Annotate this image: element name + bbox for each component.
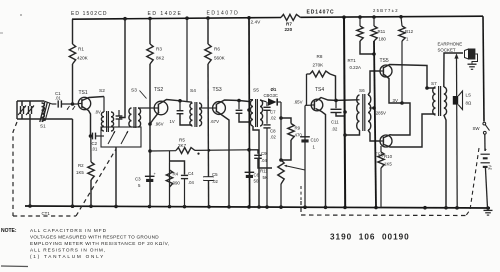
capacitor C10 1 tantalum [304,170,306,207]
resistor R10 1K5 [380,146,382,152]
shield can box [101,127,141,147]
potentiometer R11 5K volume [279,158,283,162]
svg-text:.01: .01 [92,147,98,152]
wire S6 sec tap [369,107,374,109]
wire S5 bottom return [253,126,259,207]
resistor R7 220 in top bus [281,14,301,20]
wire tank bottom [17,118,73,120]
wire TS1 emitter [82,107,91,136]
svg-text:S7: S7 [431,81,437,86]
resistor R11b 180 [373,17,375,26]
svg-text:C3: C3 [135,177,141,182]
inductor S4 [190,103,193,126]
svg-text:.02: .02 [332,127,338,132]
svg-text:+: + [484,148,487,153]
transistor TS4 [311,99,323,111]
svg-text:.04: .04 [188,180,194,185]
thermistor RT1 0.22A [359,17,361,26]
wire S5 to diode [260,100,267,102]
wire supply drop to IF can [119,19,125,118]
resistor R3 8K2 [149,19,151,45]
svg-text:2.4V: 2.4V [251,20,262,26]
resistor R1 420K [72,19,74,44]
svg-text:8K2: 8K2 [156,56,165,61]
wire tank to ground bus [29,119,31,206]
svg-text:SW: SW [473,126,481,131]
wire cap stubs [21,101,23,106]
wire S7 sec bottom to bus [444,115,446,208]
svg-text:.02: .02 [270,115,276,120]
variable capacitor CT1b [28,106,30,114]
svg-text:TS1: TS1 [79,90,88,96]
wire diode out [277,101,281,103]
switch SW [483,122,486,125]
wire long vertical ED1407C drop [248,18,251,207]
svg-text:R6: R6 [214,47,220,52]
svg-text:.96V: .96V [155,122,164,127]
capacitor C4 .04 [170,161,185,175]
inductor S2 [103,97,105,113]
wire right edge supply drop [483,16,484,121]
wire volume to TS4 base [304,106,306,171]
capacitor C7 .02 [266,102,268,106]
svg-text:LS: LS [466,93,471,98]
svg-text:EMPLOYING METER WITH RESIS: EMPLOYING METER WITH RESISTANCE OF 20 KΩ… [30,241,170,246]
svg-text:ED 1402E: ED 1402E [148,11,183,17]
speck marks [20,14,22,16]
wire can to ground [115,147,117,206]
transformer S7 output [433,87,436,115]
capacitor C11 .02 [335,100,337,108]
svg-text:.02: .02 [270,134,276,139]
capacitor at TS3 collector [238,101,240,110]
wire S6 primary bottom [345,130,359,135]
svg-text:C10: C10 [311,138,320,143]
wire TS5 emitter [384,75,402,104]
svg-text:CBG3C: CBG3C [264,93,278,98]
node dots on top bus [123,17,127,21]
dashed battery diagonal [466,148,479,216]
earphone jack symbol [465,49,469,59]
svg-text:.65V: .65V [294,100,303,105]
capacitor C3 5 tantalum [145,175,155,177]
star junction mark [197,153,199,155]
inductor S6 driver transformer [358,99,360,101]
wire speaker line with arrow [456,58,459,208]
svg-text:R10: R10 [384,154,393,159]
capacitor C6 50 electrolytic [245,171,255,173]
svg-text:SOCKET: SOCKET [438,47,456,52]
svg-text:220: 220 [285,27,293,32]
wire TS2 collector [159,100,192,105]
transistor TS3 [213,102,226,115]
svg-text:C9: C9 [261,151,267,156]
svg-text:VOLTAGES MEASURED WITH RESP: VOLTAGES MEASURED WITH RESPECT TO GROUND [30,235,159,240]
capacitor C8 .02 [266,111,268,124]
svg-text:TS5: TS5 [380,58,389,64]
wire S3 to TS2 base [138,107,155,109]
wire top supply bus left segment [72,18,281,20]
svg-text:CT1: CT1 [42,211,51,216]
svg-text:S1: S1 [40,124,46,129]
wire TS6 collector to S7 [384,114,436,147]
wire tank top [17,100,44,102]
transistor TS2 [154,101,168,115]
wire switch to battery [484,134,486,151]
capacitor C5 .02 on line [203,176,213,178]
svg-text:ALL CAPACITORS IN MFD: ALL CAPACITORS IN MFD [30,228,107,233]
wire emitter rail to TS6 [392,103,410,135]
wire tank bottom return [72,119,74,206]
wire TS3 collector [217,100,249,104]
dashed module box left side [300,201,302,215]
wire S6 sec top to TS5 base [368,71,380,95]
wire TS1 collector to S2 [82,97,104,101]
svg-text:R11: R11 [260,169,268,174]
dashed module box bottom [301,214,466,217]
svg-text:C7: C7 [270,109,276,114]
wire top supply bus right segment [301,16,484,17]
svg-text:270K: 270K [313,63,325,68]
variable capacitor CT1a [20,106,22,114]
wire TS5 collector to S7 [384,65,436,89]
resistor R9 470 [281,118,291,124]
capacitor 1V coupling [179,101,181,110]
resistor R4 390 [169,163,171,207]
svg-text:.8V: .8V [95,110,101,115]
capacitor C1 .01 [44,101,52,104]
resistor R8 270K feedback [306,74,308,106]
svg-text:2K7: 2K7 [178,143,187,148]
wire R5 node feed [150,150,176,152]
agc arrow marks [67,106,70,110]
svg-text:1K5: 1K5 [76,170,84,175]
svg-text:R12: R12 [405,29,414,34]
svg-text:R11: R11 [378,29,386,34]
svg-text:R5: R5 [179,138,185,143]
svg-text:S3: S3 [131,88,137,94]
capacitor C2 .01 [89,134,93,138]
wire battery to ground bus [485,167,487,208]
node TS1 base [71,102,75,106]
svg-text:R2: R2 [78,163,84,168]
wire TS6 emitter [384,135,392,138]
svg-text:R4: R4 [173,172,179,177]
wiper dashes [300,186,302,200]
svg-text:TS4: TS4 [315,87,324,93]
loudspeaker LS 8 ohm [453,96,458,105]
inductor S1 antenna coil [42,103,45,121]
node dots on bottom bus [28,204,32,208]
svg-text:NOTE:: NOTE: [1,228,17,234]
svg-text:390: 390 [173,181,181,186]
ground symbol right end [484,209,493,211]
svg-text:1V: 1V [170,119,175,124]
trimmer capacitor in can [118,110,120,116]
ground at earphone socket [468,63,477,65]
wire thick AF rail [344,17,345,207]
svg-text:C4: C4 [188,171,194,176]
wire S4 to TS3 base [199,107,213,109]
trimmer arrows in can [108,131,115,144]
wire TS2 emitter to node [150,112,159,124]
svg-text:8Ω: 8Ω [466,101,472,106]
svg-text:TS3: TS3 [213,87,222,93]
resistor R5 2K7 [176,148,195,154]
svg-text:25B77±2: 25B77±2 [373,8,399,13]
svg-text:R8: R8 [317,54,323,59]
svg-text:C11: C11 [331,120,339,125]
svg-text:EARPHONE: EARPHONE [438,41,463,46]
svg-text:ED1407D: ED1407D [207,11,240,17]
svg-text:R3: R3 [156,47,162,52]
transistor TS5 [380,65,392,77]
svg-text:.02: .02 [212,179,218,184]
svg-text:TS2: TS2 [154,87,163,93]
svg-text:3190 106 00190: 3190 106 00190 [330,233,410,242]
wire bottom ground bus [25,206,490,208]
capacitor C9 .04 [249,150,258,154]
svg-text:0.22A: 0.22A [350,65,362,70]
svg-text:S4: S4 [190,88,196,94]
svg-text:(1) TANTALUM ONLY: (1) TANTALUM ONLY [30,254,105,259]
svg-text:C2: C2 [92,141,98,146]
svg-text:5K: 5K [263,175,268,180]
dashed gang link CT1 left [13,122,17,216]
stray mark bottom left [1,265,28,268]
diode D1 CBG3C [268,98,277,106]
resistor R12 1 [401,17,402,26]
svg-text:RT1: RT1 [348,58,357,63]
svg-text:180: 180 [379,37,387,42]
svg-text:S5: S5 [253,88,259,94]
svg-text:50: 50 [254,179,259,184]
resistor R6 560K [207,18,209,44]
transistor TS1 [78,97,90,109]
wire TS3 emitter [217,112,229,207]
svg-text:560K: 560K [214,56,226,61]
svg-text:.67V: .67V [210,119,219,124]
inductor S3 [129,108,132,127]
svg-text:ED1407C: ED1407C [307,10,335,16]
wire drop ED1407D left [186,18,188,101]
wire S7 sec top to socket [444,53,463,87]
svg-text:C5: C5 [212,172,218,177]
svg-text:C8: C8 [270,128,276,133]
svg-text:R9: R9 [295,126,301,131]
transistor TS6 [380,135,392,147]
svg-text:ED 1502CD: ED 1502CD [71,11,108,17]
wire TS4 collector [316,98,359,102]
svg-text:R7: R7 [286,21,292,26]
svg-text:Ø1: Ø1 [271,87,277,92]
resistor R2 1K5 [90,136,92,162]
svg-text:1K5: 1K5 [384,162,392,167]
svg-text:.285V: .285V [375,111,387,116]
wire tank left side [16,101,18,119]
svg-text:.01: .01 [55,96,61,101]
wire TS4 emitter [316,109,326,208]
wire S6 sec bottom to TS6 base [368,130,380,141]
inductor S5 [249,99,253,101]
svg-text:420K: 420K [77,56,89,61]
svg-text:3V: 3V [393,98,398,103]
svg-text:S6: S6 [359,88,365,93]
svg-text:S2: S2 [99,88,105,94]
dashed gang diagonal [76,149,116,216]
wire detector to volume pot [280,102,282,160]
svg-text:3V: 3V [488,165,493,170]
svg-text:R1: R1 [78,47,84,52]
svg-text:ALL RESISTORS IN OHM,: ALL RESISTORS IN OHM, [30,248,106,253]
